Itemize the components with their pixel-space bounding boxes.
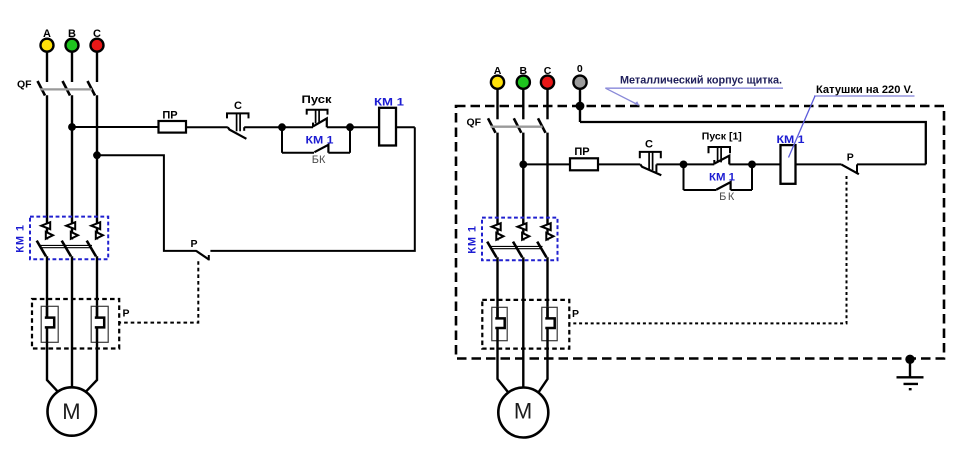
contactor KM1 main box right — [482, 218, 558, 261]
svg-text:Р: Р — [122, 307, 129, 319]
KM1 linkage double bar — [41, 245, 93, 247]
start button plunger stem — [316, 110, 320, 124]
wire start contact to right node — [327, 126, 350, 128]
svg-text:С: С — [645, 138, 653, 150]
wire node to coil KM1 — [350, 126, 379, 128]
breaker QF pole 3 lever — [88, 81, 96, 96]
indicator lamp B right (green) — [517, 76, 530, 89]
KM1 pole 3 lower chevron — [96, 232, 103, 239]
panel enclosure dashed box — [456, 106, 944, 359]
KM1 right pole 1 lower chevron — [496, 233, 503, 240]
svg-text:Катушки на 220 V.: Катушки на 220 V. — [816, 84, 913, 96]
KM1 pole 2 upper chevron — [66, 222, 75, 229]
node right of start button right — [748, 161, 756, 169]
wire P contact to hold line — [97, 155, 197, 251]
KM1 right pole 2 lower chevron — [522, 233, 529, 240]
svg-text:Р: Р — [572, 308, 579, 320]
thermal element 2 case right — [542, 307, 557, 340]
junction node on phase C — [93, 151, 101, 159]
breaker QF right pole 3 lever — [538, 118, 546, 133]
phase wire A right QF to KM1 — [496, 133, 498, 241]
svg-text:КМ 1: КМ 1 — [15, 224, 27, 253]
svg-text:БК: БК — [312, 154, 326, 166]
neutral junction node on enclosure — [576, 102, 585, 111]
KM1 pole 1 upper chevron — [41, 222, 50, 229]
wire node to coil right — [752, 163, 781, 165]
aux BK NO lever right — [716, 182, 730, 190]
phase wire C KM1 to thermal — [96, 256, 98, 317]
stop button C NC lever right — [640, 164, 661, 175]
motor M circle right — [498, 388, 548, 438]
thermal element 2 case — [91, 306, 108, 342]
wire lamp B right to QF — [522, 89, 524, 119]
aux contact BK wire left — [282, 152, 314, 154]
phase wire B KM1 to motor region — [71, 256, 73, 387]
wire thermal A right to motor — [498, 341, 509, 393]
start button fixed contact tick — [312, 123, 314, 128]
svg-text:0: 0 — [577, 63, 583, 75]
svg-text:ПР: ПР — [162, 110, 177, 122]
relay contact P NC lever right — [841, 164, 859, 174]
wire lamp C right to QF — [546, 89, 548, 119]
svg-text:C: C — [234, 100, 242, 112]
coil KM1 body right — [781, 145, 796, 184]
neutral lamp 0 (grey) — [573, 76, 586, 89]
stop button C NC contact lever — [228, 127, 247, 139]
relay contact P lever end tick — [208, 255, 210, 260]
junction node on phase B right — [519, 161, 527, 169]
wire lamp C to QF — [96, 52, 98, 82]
wire B to fuse — [72, 126, 159, 128]
aux contact branch left drop — [281, 127, 283, 153]
KM1 right pole 3 lower chevron — [546, 233, 553, 240]
annotation metal enclosure leader arrow — [606, 88, 639, 105]
indicator lamp A right (yellow) — [491, 76, 504, 89]
phase wire A QF to KM1 — [46, 95, 48, 239]
stop button C plunger stem right — [649, 152, 653, 170]
start button actuator bracket right — [709, 147, 731, 153]
aux contact BK wire right — [328, 152, 350, 154]
phase wire C right QF to KM1 — [546, 133, 548, 241]
svg-text:Р: Р — [190, 238, 197, 250]
node left of start button right — [680, 161, 688, 169]
indicator lamp C (red) — [91, 39, 104, 52]
svg-text:ПР: ПР — [574, 146, 589, 158]
ground symbol — [897, 359, 924, 390]
svg-text:Пуск: Пуск — [302, 94, 333, 106]
wire node to start contact — [282, 126, 313, 128]
thermal element 1 case — [41, 306, 58, 342]
stop button C actuator bracket — [227, 113, 249, 118]
aux branch right drop right — [751, 164, 753, 190]
neutral rail horizontal — [580, 122, 926, 164]
wire lamp B to QF — [71, 52, 73, 82]
thermal element 2 heater — [95, 306, 104, 342]
wire lamp A to QF — [46, 52, 48, 82]
KM1 right linkage double bar — [491, 246, 543, 248]
svg-text:М: М — [62, 399, 80, 424]
start button NO contact lever — [313, 118, 327, 127]
wire coil to P contact right — [796, 163, 842, 165]
earth junction node — [905, 355, 914, 364]
KM1 pole 3 lever — [87, 241, 96, 257]
phase wire B right QF to KM1 — [522, 133, 524, 241]
wire lamp A right to QF — [496, 89, 498, 119]
breaker QF right pole 2 lever — [514, 118, 522, 133]
phase wire B QF to KM1 — [71, 95, 73, 239]
wire stop button to start node — [244, 126, 282, 128]
aux contact branch right drop — [349, 127, 351, 153]
aux BK wire right right — [731, 189, 752, 191]
svg-text:М: М — [514, 398, 532, 423]
wire start to right node right — [729, 163, 752, 165]
aux contact BK NO lever — [314, 145, 328, 153]
thermal relay box right — [482, 300, 569, 349]
wire B right to fuse — [523, 163, 570, 165]
wire fuse to stop button C — [186, 126, 228, 128]
svg-text:БК: БК — [719, 191, 736, 203]
mechanical link dotted P — [119, 261, 198, 322]
phase wire A KM1 to thermal — [46, 256, 48, 317]
phase wire A right KM1 to thermal — [496, 257, 498, 318]
svg-text:Металлический корпус щитка.: Металлический корпус щитка. — [620, 75, 782, 87]
wire stop to start node right — [656, 163, 683, 165]
aux branch left drop right — [683, 164, 685, 190]
fuse PR body — [159, 121, 187, 133]
KM1 right pole 2 lever — [513, 242, 522, 258]
annotation coil 220V leader — [789, 96, 816, 158]
thermal element 1 case right — [492, 307, 507, 340]
neutral wire drop — [579, 89, 581, 122]
annotation metal enclosure leader arrowhead — [634, 101, 639, 105]
KM1 right pole 1 upper chevron — [492, 223, 501, 230]
breaker QF linkage bar — [40, 88, 92, 90]
phase wire C QF to KM1 — [96, 95, 98, 239]
contactor KM1 main box — [30, 217, 108, 260]
junction node on phase B — [68, 123, 76, 131]
KM1 pole 1 lower chevron — [46, 232, 53, 239]
svg-text:Р: Р — [847, 152, 854, 164]
breaker QF right linkage bar — [491, 126, 543, 128]
thermal element 1 heater — [45, 306, 54, 342]
start button plunger stem right — [718, 147, 722, 162]
wire P contact to neutral rail — [857, 163, 926, 165]
KM1 pole 3 upper chevron — [91, 222, 100, 229]
relay contact P NC lever — [196, 251, 209, 260]
wire thermal C right to motor — [539, 341, 548, 393]
svg-text:QF: QF — [17, 78, 32, 90]
aux BK wire left right — [684, 189, 717, 191]
annotation metal enclosure underline — [605, 87, 783, 89]
indicator lamp B (green) — [66, 39, 79, 52]
thermal relay box — [32, 299, 119, 349]
svg-text:Пуск [1]: Пуск [1] — [702, 131, 742, 143]
KM1 pole 2 lower chevron — [71, 232, 78, 239]
KM1 right pole 1 lever — [487, 242, 496, 258]
phase wire C right KM1 to thermal — [546, 257, 548, 318]
KM1 pole 1 lever — [37, 241, 46, 257]
thermal element 2 heater right — [545, 307, 554, 340]
motor M circle — [47, 387, 95, 435]
stop button C fixed contact tick — [243, 127, 245, 131]
node left of start button — [278, 123, 286, 131]
thermal element 1 heater right — [495, 307, 504, 340]
indicator lamp A (yellow) — [41, 39, 54, 52]
breaker QF right pole 1 lever — [488, 118, 496, 133]
breaker QF pole 1 lever — [38, 81, 46, 96]
coil KM1 body — [379, 108, 396, 146]
right return rail — [210, 127, 414, 251]
KM1 right pole 3 lever — [537, 242, 546, 258]
wire thermal C to motor — [86, 342, 97, 392]
start button NO lever right — [714, 156, 729, 165]
stop button C actuator bracket right — [640, 152, 661, 158]
wire node to start contact right — [684, 163, 715, 165]
svg-text:QF: QF — [467, 116, 482, 128]
start button fixed tick right — [713, 160, 715, 164]
wire fuse right to stop button — [598, 163, 640, 165]
node right of start button — [346, 123, 354, 131]
relay contact P tick right — [856, 164, 858, 173]
KM1 right pole 3 upper chevron — [542, 223, 551, 230]
stop button C plunger stem — [237, 113, 241, 131]
annotation coil 220V underline — [814, 95, 915, 97]
stop button C fixed tick right — [655, 164, 657, 172]
breaker QF pole 2 lever — [63, 81, 71, 96]
mechanical link dotted P right — [570, 176, 847, 323]
KM1 pole 2 lever — [62, 241, 71, 257]
indicator lamp C right (red) — [541, 76, 554, 89]
phase wire B right KM1 to motor — [522, 257, 524, 388]
svg-text:КМ 1: КМ 1 — [467, 225, 479, 254]
wire thermal A to motor — [47, 342, 58, 392]
fuse PR body right — [570, 158, 598, 170]
start button actuator bracket — [307, 110, 328, 115]
wire coil to right rail — [396, 126, 415, 128]
KM1 right pole 2 upper chevron — [518, 223, 527, 230]
